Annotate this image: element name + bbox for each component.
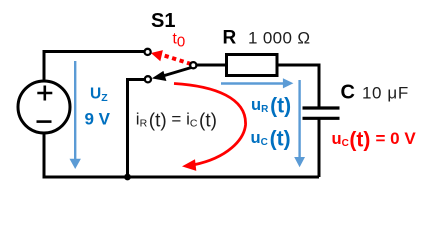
- voltage source plus sign: [37, 86, 52, 101]
- node junction dot at bottom: [124, 174, 131, 181]
- capacitor C plates: [303, 108, 340, 118]
- switch terminal lower throw: [145, 76, 151, 82]
- wire middle vertical from switch lower throw to bottom node: [128, 80, 146, 178]
- red current direction arc: [174, 84, 246, 165]
- voltage source U_Z circle: [18, 81, 70, 133]
- switch terminal upper throw: [145, 49, 151, 55]
- switch S1 red dashed arrow to upper throw: [164, 55, 192, 64]
- voltage source minus sign: [37, 120, 52, 123]
- blue arrow u_C across capacitor: [298, 80, 300, 158]
- svg-text:9 V: 9 V: [85, 110, 111, 129]
- wire capacitor bottom to bottom rail: [318, 120, 321, 178]
- wire bottom rail and source bottom lead: [43, 133, 320, 177]
- wire top left from source to switch: [44, 52, 145, 83]
- svg-text:C: C: [341, 82, 355, 104]
- switch S1 lever (black arrow to lower throw): [165, 67, 194, 76]
- switch terminal common: [190, 62, 196, 68]
- blue arrow u_R across resistor: [221, 82, 284, 84]
- resistor R body: [227, 55, 278, 76]
- svg-text:R: R: [223, 28, 237, 49]
- wire from switch common to resistor: [196, 64, 226, 67]
- svg-text:S1: S1: [151, 10, 175, 32]
- svg-text:10 μF: 10 μF: [362, 84, 409, 103]
- blue arrow U_Z (source voltage): [74, 61, 76, 159]
- svg-text:iR (t) = iC (t): iR (t) = iC (t): [136, 110, 217, 132]
- wire from resistor to capacitor top: [277, 65, 319, 107]
- svg-text:1 000 Ω: 1 000 Ω: [248, 29, 310, 48]
